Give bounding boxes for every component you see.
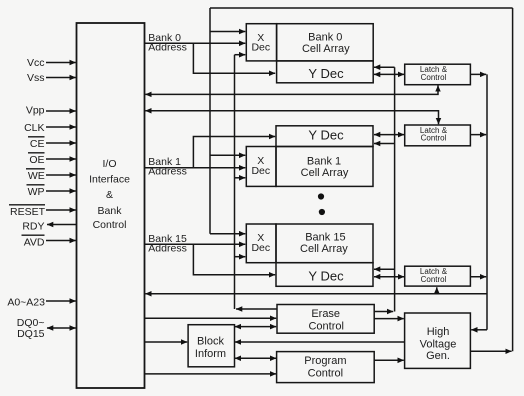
wire Latch1 output to bus <box>470 73 486 75</box>
svg-text:Control: Control <box>308 367 343 379</box>
label I/O Interface & Bank Control <box>89 158 130 231</box>
label Block Inform <box>195 336 226 360</box>
svg-text:Address: Address <box>148 42 187 54</box>
svg-text:Gen.: Gen. <box>426 350 450 362</box>
wire I/O to Latch1 <box>145 85 438 94</box>
label Bank 0 Cell Array <box>302 32 350 55</box>
high-voltage bus left segment <box>209 8 211 234</box>
svg-text:Interface: Interface <box>89 173 130 185</box>
svg-text:High: High <box>427 326 450 338</box>
I/O Interface & Bank Control block <box>77 23 145 388</box>
svg-text:Bank 0: Bank 0 <box>308 32 342 44</box>
Erase Control block <box>277 305 374 334</box>
pin WP wire <box>46 190 76 192</box>
wire Y Dec Bank15 to Latch3 double arrow <box>374 276 404 278</box>
wire bus to X Dec Bank1 <box>210 154 245 156</box>
svg-text:Cell Array: Cell Array <box>300 243 348 255</box>
wire I/O to Latch2 <box>145 111 438 125</box>
label Erase Control <box>308 308 343 332</box>
svg-text:Block: Block <box>197 336 224 348</box>
wire Erase Control to erase column bus <box>374 311 393 313</box>
svg-text:I/O: I/O <box>102 158 116 170</box>
label Bank 1 Cell Array <box>301 156 349 180</box>
svg-text:WP: WP <box>28 186 45 198</box>
svg-text:Control: Control <box>421 275 447 284</box>
wire I/O to Latch3 bus <box>145 293 487 295</box>
wire Latch3 bottom branch <box>436 287 438 293</box>
wire Erase Control to High Voltage Gen. <box>374 318 404 320</box>
erase row-address bus vertical <box>234 55 236 309</box>
svg-text:Vss: Vss <box>27 72 45 84</box>
high-voltage bus right segment <box>512 8 514 351</box>
svg-text:Inform: Inform <box>195 348 226 360</box>
svg-text:Cell Array: Cell Array <box>301 167 349 179</box>
svg-text:Address: Address <box>148 165 187 177</box>
svg-text:DQ15: DQ15 <box>17 328 45 340</box>
wire Block Inform to Erase Control double arrow <box>235 326 276 328</box>
svg-text:Y Dec: Y Dec <box>308 66 344 81</box>
wire I/O to Block Inform <box>145 341 188 343</box>
svg-text:&: & <box>106 189 113 201</box>
svg-text:RDY: RDY <box>22 221 44 233</box>
svg-text:Bank: Bank <box>98 205 123 217</box>
ellipsis dot lower <box>319 209 325 215</box>
pin CLK wire <box>46 126 76 128</box>
wire Latch3 output to bus <box>470 276 486 278</box>
wire Bank 15 Address <box>145 243 246 245</box>
pin RDY wire <box>47 224 77 226</box>
wire Bank 0 Address <box>145 42 246 44</box>
wire erase row bus to X Dec Bank15 <box>235 256 246 258</box>
svg-text:Y Dec: Y Dec <box>308 268 344 283</box>
wire Y Dec Bank0 to Latch1 double arrow <box>374 73 404 75</box>
label High Voltage Gen. <box>420 326 457 362</box>
pin WE wire <box>46 174 76 176</box>
pin Vpp wire <box>46 110 76 112</box>
pin CE wire <box>46 142 76 144</box>
wire Bank 0 Address branch to Y Dec <box>193 43 275 73</box>
wire bus to X Dec Bank15 <box>210 233 245 235</box>
svg-text:WE: WE <box>28 170 45 182</box>
Y Dec Bank0 block <box>277 61 374 83</box>
latch output bus vertical <box>486 74 488 329</box>
Y Dec Bank15 block <box>276 263 373 287</box>
svg-text:Cell Array: Cell Array <box>302 43 350 55</box>
svg-text:Vcc: Vcc <box>27 57 45 69</box>
svg-text:Bank 15: Bank 15 <box>305 231 345 243</box>
svg-text:Control: Control <box>308 320 343 332</box>
label Program Control <box>304 355 346 379</box>
X Dec Bank0 block <box>246 24 276 61</box>
wire High Voltage Gen. output to bus <box>470 350 511 352</box>
X Dec Bank15 block <box>246 224 276 263</box>
label Latch & Control 1 <box>420 65 448 82</box>
svg-text:Erase: Erase <box>311 308 340 320</box>
wire High Voltage Gen. to Block Inform <box>235 341 405 343</box>
svg-text:Vpp: Vpp <box>26 105 45 117</box>
svg-text:Dec: Dec <box>251 242 270 254</box>
pin Vcc wire <box>46 62 76 64</box>
erase column bus vertical <box>394 67 396 311</box>
svg-text:Control: Control <box>421 73 447 82</box>
wire I/O to Erase Control <box>145 317 277 319</box>
Bank 15 Cell Array block <box>276 224 373 263</box>
svg-text:Dec: Dec <box>251 42 270 54</box>
wire erase row bus to X Dec Bank0 <box>235 54 246 56</box>
wire bus to X Dec Bank0 <box>210 31 245 33</box>
X Dec Bank1 block <box>246 147 276 187</box>
wire Bank 15 Address branch to Y Dec <box>193 244 275 274</box>
label Latch & Control 3 <box>420 267 448 284</box>
Latch & Control 1 block <box>405 64 471 85</box>
wire Block Inform to Program Control double arrow <box>235 357 276 359</box>
wire Erase Control to erase row bus <box>236 308 277 310</box>
label Latch & Control 2 <box>420 126 448 143</box>
Bank 0 Cell Array block <box>277 24 374 61</box>
high-voltage bus top segment <box>210 7 513 9</box>
svg-text:RESET: RESET <box>10 206 46 218</box>
wire erase column bus to Y Dec Bank1 <box>374 143 395 145</box>
svg-text:OE: OE <box>29 154 44 166</box>
wire Y Dec Bank1 to Latch2 double arrow <box>374 134 404 136</box>
wire latch bus into High Voltage Gen. <box>471 329 487 331</box>
wire erase column bus to Y Dec Bank15 <box>374 268 395 270</box>
wire Program Control to High Voltage Gen. <box>374 359 404 361</box>
wire erase column bus to Y Dec Bank0 <box>374 66 395 68</box>
svg-text:AVD: AVD <box>24 237 45 249</box>
label X Dec Bank0 <box>251 32 270 54</box>
wire erase row bus to X Dec Bank1 <box>235 177 246 179</box>
pin A0~A23 wire <box>46 300 76 302</box>
Y Dec Bank1 block <box>276 126 373 147</box>
ellipsis dot upper <box>318 193 324 199</box>
svg-text:Control: Control <box>93 219 127 231</box>
wire Latch2 output to bus <box>470 134 486 136</box>
label X Dec Bank15 <box>251 232 270 254</box>
svg-text:Control: Control <box>421 134 447 143</box>
Block Inform block <box>188 325 234 367</box>
pin DQ0~DQ15 wire <box>47 327 76 329</box>
svg-text:CLK: CLK <box>24 122 44 134</box>
svg-text:Bank 1: Bank 1 <box>307 156 341 168</box>
wire Bank 1 Address branch to Y Dec <box>193 137 275 168</box>
wire I/O to Program Control <box>145 373 277 375</box>
Latch & Control 3 block <box>405 266 471 286</box>
svg-text:Program: Program <box>304 355 346 367</box>
label Bank 15 Cell Array <box>300 231 348 255</box>
pin Vss wire <box>46 77 76 79</box>
label X Dec Bank1 <box>251 155 270 177</box>
High Voltage Gen. block <box>405 313 471 368</box>
svg-text:CE: CE <box>30 138 45 150</box>
Latch & Control 2 block <box>405 125 471 146</box>
svg-text:Voltage: Voltage <box>420 338 457 350</box>
pin RESET wire <box>46 209 76 211</box>
pin OE wire <box>46 158 76 160</box>
svg-text:Y Dec: Y Dec <box>308 128 344 143</box>
Program Control block <box>277 352 375 383</box>
wire Bank 1 Address <box>145 167 246 169</box>
Bank 1 Cell Array block <box>276 147 373 187</box>
svg-text:Dec: Dec <box>251 165 270 177</box>
pin AVD wire <box>46 240 76 242</box>
svg-text:A0~A23: A0~A23 <box>7 297 45 309</box>
svg-text:Address: Address <box>148 243 187 255</box>
